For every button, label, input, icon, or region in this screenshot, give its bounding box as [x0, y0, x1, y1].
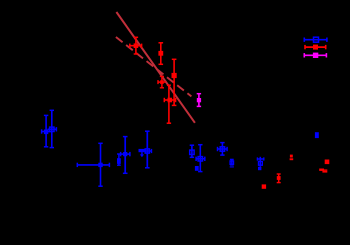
data point B11 (small blue open square, y error bar, limit dash) [230, 159, 234, 167]
data point B12 (blue open square over filled square, stacked) [257, 157, 263, 170]
dashed trend line [116, 37, 191, 96]
data point RG (red left-limit dashes) [319, 169, 327, 173]
data point RE (small red marker with lower dash) [290, 155, 294, 161]
legend entry 1 (blue open square with x error bar) [304, 37, 327, 42]
data point B6a (blue filled square with downward limit arrow) [139, 149, 145, 157]
data point B9 (blue filled square) [195, 166, 199, 171]
data point B2 (blue open square, x/y error bars) [48, 110, 57, 147]
data point B10 (blue open square, x/y error bars) [218, 143, 228, 156]
data point B8 (blue open square, x/y error bars) [196, 145, 205, 172]
solid trend line [116, 12, 194, 123]
data point B5 (blue filled square, long y error bar) [121, 137, 130, 174]
data point B4 (small blue filled marker, y error bar) [117, 154, 121, 165]
data point PC (red filled square, x/y error bars) [158, 76, 166, 87]
data point RI (red filled square, y error bar) [277, 174, 281, 183]
data point B1 (blue open square, x/y error bars) [42, 115, 51, 146]
data point RH (red filled square) [262, 184, 266, 188]
data point RF (red filled square) [325, 160, 330, 165]
legend entry 2 (red filled square with x error bar) [305, 45, 326, 50]
legend entry 3 (magenta filled square with x error bar) [304, 53, 326, 58]
data point B13 (blue filled rectangle marker) [315, 132, 319, 138]
data point B7 (blue open square, y error bar) [190, 145, 194, 157]
data point PA (red filled square, x/y error bars) [164, 85, 175, 123]
data point Q1 (red filled square, long y error bar) [172, 59, 177, 105]
data point R1 (red filled square, x/y error bars) [130, 37, 142, 54]
data point B3 (blue filled square, large cross error bars) [77, 143, 109, 186]
data point M1 (magenta filled square, y error bar) [197, 94, 201, 107]
data point R2 (red filled square, y error bar) [158, 43, 163, 65]
data point B6b (blue open square, x/y error bars) [144, 131, 152, 168]
